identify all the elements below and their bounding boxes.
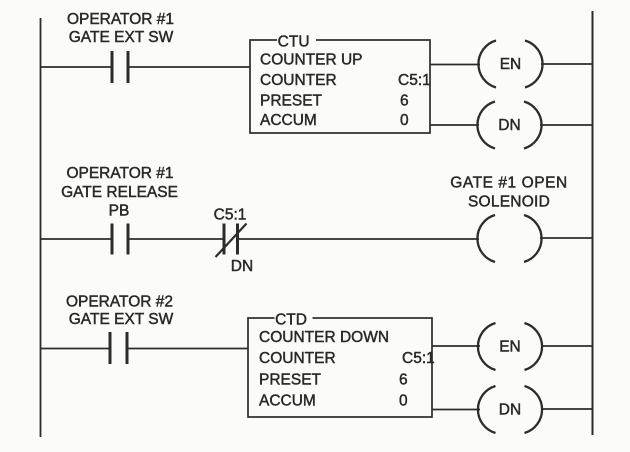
wire CTU to DN coil: [430, 124, 479, 126]
label rung2 output GATE #1 OPEN / SOLENOID: [450, 174, 567, 210]
wire rung3 contact to CTD box: [128, 348, 248, 350]
svg-text:PB: PB: [109, 203, 130, 220]
svg-text:COUNTER DOWN: COUNTER DOWN: [259, 329, 389, 346]
wire CTD to EN coil: [432, 345, 480, 347]
contact XIO C5:1/DN (normally closed): [216, 224, 247, 258]
svg-text:C5:1: C5:1: [398, 72, 431, 89]
svg-text:OPERATOR #1: OPERATOR #1: [67, 11, 174, 28]
svg-text:DN: DN: [498, 117, 520, 134]
svg-text:COUNTER UP: COUNTER UP: [260, 51, 362, 68]
svg-text:6: 6: [399, 371, 408, 388]
svg-text:OPERATOR #1: OPERATOR #1: [66, 165, 173, 182]
svg-text:OPERATOR #2: OPERATOR #2: [66, 293, 173, 310]
wire rung2 NC contact to solenoid coil: [239, 238, 479, 240]
coil DN (CTU done): [477, 102, 541, 149]
wire EN coil to right rail: [541, 63, 592, 65]
svg-text:COUNTER: COUNTER: [260, 72, 337, 89]
label rung3 OPERATOR #2 / GATE EXT SW: [66, 293, 174, 328]
wire EN coil to right rail: [541, 345, 592, 347]
svg-text:DN: DN: [499, 402, 521, 419]
svg-text:GATE RELEASE: GATE RELEASE: [61, 184, 178, 201]
svg-text:EN: EN: [500, 56, 522, 73]
svg-text:C5:1: C5:1: [402, 350, 435, 367]
svg-text:PRESET: PRESET: [260, 92, 323, 109]
svg-text:C5:1: C5:1: [214, 206, 247, 223]
coil OTE Gate #1 Open Solenoid: [477, 215, 541, 262]
wire DN coil to right rail: [541, 408, 592, 410]
coil EN (CTD enable): [478, 323, 542, 370]
svg-text:PRESET: PRESET: [259, 371, 322, 388]
svg-text:SOLENOID: SOLENOID: [468, 194, 550, 211]
svg-text:0: 0: [399, 392, 408, 409]
contact XIC rung3 (Operator #2 Gate Ext Sw): [110, 332, 127, 364]
svg-text:DN: DN: [231, 258, 253, 275]
wire DN coil to right rail: [540, 124, 592, 126]
svg-text:CTU: CTU: [278, 33, 310, 50]
wire rung2 PB to C5:1 contact: [129, 238, 223, 240]
wire rung2 rail to PB contact: [40, 238, 111, 240]
right power rail: [592, 11, 594, 435]
label rung1 OPERATOR #1 / GATE EXT SW: [67, 11, 174, 46]
svg-text:GATE EXT SW: GATE EXT SW: [69, 311, 174, 328]
svg-text:GATE #1 OPEN: GATE #1 OPEN: [450, 174, 567, 191]
wire CTU to EN coil: [430, 64, 480, 66]
counter CTD C5:1 box: [248, 311, 435, 417]
left power rail: [40, 18, 42, 437]
coil EN (CTU enable): [478, 41, 542, 88]
svg-text:CTD: CTD: [275, 311, 307, 328]
wire CTD to DN coil: [432, 409, 480, 411]
wire rung1 rail to contact: [40, 66, 111, 68]
contact XIC rung2 PB: [112, 224, 128, 255]
contact XIC rung1 (Operator #1 Gate Ext Sw): [112, 51, 128, 83]
label rung2 OPERATOR #1 / GATE RELEASE / PB: [61, 165, 178, 220]
svg-text:COUNTER: COUNTER: [259, 350, 336, 367]
wire rung3 rail to contact: [40, 348, 109, 350]
wire rung2 coil to right rail: [540, 237, 592, 239]
svg-text:EN: EN: [499, 339, 521, 356]
svg-text:ACCUM: ACCUM: [259, 392, 316, 409]
svg-text:ACCUM: ACCUM: [260, 112, 317, 129]
svg-text:6: 6: [400, 92, 409, 109]
counter CTU C5:1 box: [250, 33, 431, 133]
wire rung1 contact to CTU box: [129, 66, 250, 68]
coil DN (CTD done): [478, 386, 542, 433]
svg-text:GATE EXT SW: GATE EXT SW: [69, 29, 174, 46]
svg-text:0: 0: [400, 112, 409, 129]
